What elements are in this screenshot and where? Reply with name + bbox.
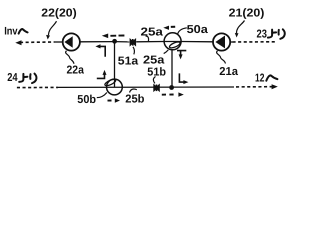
wire: vertical V2 from 50a down to junction J2 bbox=[171, 50, 173, 88]
valve 50a detail ellipse bbox=[169, 41, 181, 49]
svg-text:Inv: Inv bbox=[4, 25, 18, 37]
check valve 21 (circle) bbox=[213, 33, 230, 50]
svg-text:25a: 25a bbox=[143, 54, 165, 66]
svg-text:50b: 50b bbox=[77, 94, 96, 106]
arrowhead to 12 (right end of bottom pipe) bbox=[272, 84, 278, 89]
flow arrow bent right-up (above bottom pipe, left of 50b) bbox=[97, 74, 105, 78]
kana He (of 12へ) bbox=[266, 75, 277, 80]
svg-text:21(20): 21(20) bbox=[229, 8, 265, 20]
valve 51a (bowtie) bbox=[130, 38, 134, 47]
leader from 25a to top pipe bbox=[146, 36, 149, 41]
valve 50b detail ellipse bbox=[104, 78, 116, 87]
valve 50a (circle) bbox=[164, 33, 181, 50]
check valve 22 (circle) bbox=[63, 33, 80, 50]
wire: top pipe from 50a to check valve 21 bbox=[181, 41, 213, 43]
leader from 50b label to valve 50b bbox=[97, 93, 107, 98]
svg-text:25a: 25a bbox=[141, 27, 164, 39]
leader from check valve 21 to 21a bbox=[217, 51, 226, 64]
wire: bottom pipe dashed left segment (from 24) bbox=[17, 86, 58, 88]
wire: top pipe from J1 to valve 51a bbox=[115, 41, 130, 43]
svg-text:24: 24 bbox=[7, 72, 18, 84]
valve 51b (bowtie) bbox=[153, 84, 157, 93]
leader from valve 51a to label bbox=[133, 47, 134, 55]
wire: bottom pipe dashed right segment (to 12) bbox=[236, 86, 273, 88]
wire: top pipe from valve 22 to junction J1 bbox=[80, 41, 115, 43]
arrowhead to Inv (left end of pipe 22) bbox=[15, 40, 21, 45]
wire: top pipe from valve 51a to valve 50a bbox=[136, 41, 164, 43]
kana Yo (of 24より) bbox=[19, 74, 27, 82]
svg-text:23: 23 bbox=[257, 28, 267, 40]
check valve 21 triangle bbox=[215, 36, 225, 49]
svg-text:51b: 51b bbox=[147, 66, 166, 78]
flow arrow bent up-left (below top pipe, left of J1) bbox=[99, 46, 105, 56]
flow arrow dashed left (above top pipe near 50a) bbox=[163, 26, 169, 30]
wire: top pipe dashed right segment (pipe 21 from 23) bbox=[230, 41, 232, 43]
svg-text:22a: 22a bbox=[67, 64, 85, 76]
svg-text:12: 12 bbox=[255, 73, 264, 85]
leader from 21(20) to pipe 21 bbox=[236, 21, 244, 34]
svg-text:50a: 50a bbox=[187, 24, 209, 36]
leader from 51b label to valve 51b bbox=[153, 77, 155, 84]
flow arrow dashed right (below bottom pipe, right of 51b) bbox=[162, 94, 174, 96]
kana He (of Invへ) bbox=[19, 29, 28, 34]
check valve 22 triangle bbox=[64, 36, 72, 47]
node J1 (junction dot on top pipe) bbox=[112, 39, 117, 44]
flow arrow bent down-right (above bottom pipe, right of J2) bbox=[179, 73, 184, 82]
leader from 22(20) to pipe 22 bbox=[48, 21, 56, 35]
leader from check valve 22 to 22a bbox=[66, 51, 74, 64]
kana Ri (of 23より) bbox=[278, 29, 284, 39]
flow arrow dashed right (below 50b) bbox=[108, 100, 112, 102]
wire: top pipe through 50a bbox=[164, 41, 181, 43]
valve 50b (circle) bbox=[107, 79, 123, 95]
wire: bottom pipe solid bbox=[58, 86, 234, 88]
node J2 (junction dot on bottom pipe) bbox=[169, 85, 174, 90]
wire: top pipe solid from dashed to check valve 22 bbox=[55, 41, 63, 43]
kana Ri (of 24より) bbox=[30, 74, 36, 84]
svg-text:21a: 21a bbox=[219, 66, 238, 78]
flow arrow bent down (right of 50a, below top pipe) bbox=[177, 51, 186, 56]
wire: top pipe dashed left segment (pipe 22 to Inv) bbox=[20, 41, 55, 43]
wire: vertical V1 from J1 down to valve 50b bbox=[114, 42, 116, 87]
leader from 25b to bottom pipe bbox=[130, 89, 137, 93]
svg-text:22(20): 22(20) bbox=[41, 8, 77, 20]
svg-text:25b: 25b bbox=[125, 94, 144, 106]
flow arrow dashed left (above top pipe near J1) bbox=[102, 34, 108, 39]
svg-text:51a: 51a bbox=[118, 55, 139, 67]
leader from 50a label to valve 50a bbox=[178, 28, 187, 34]
kana Yo (of 23より) bbox=[268, 30, 276, 38]
leader from 25a lower bbox=[164, 50, 169, 54]
